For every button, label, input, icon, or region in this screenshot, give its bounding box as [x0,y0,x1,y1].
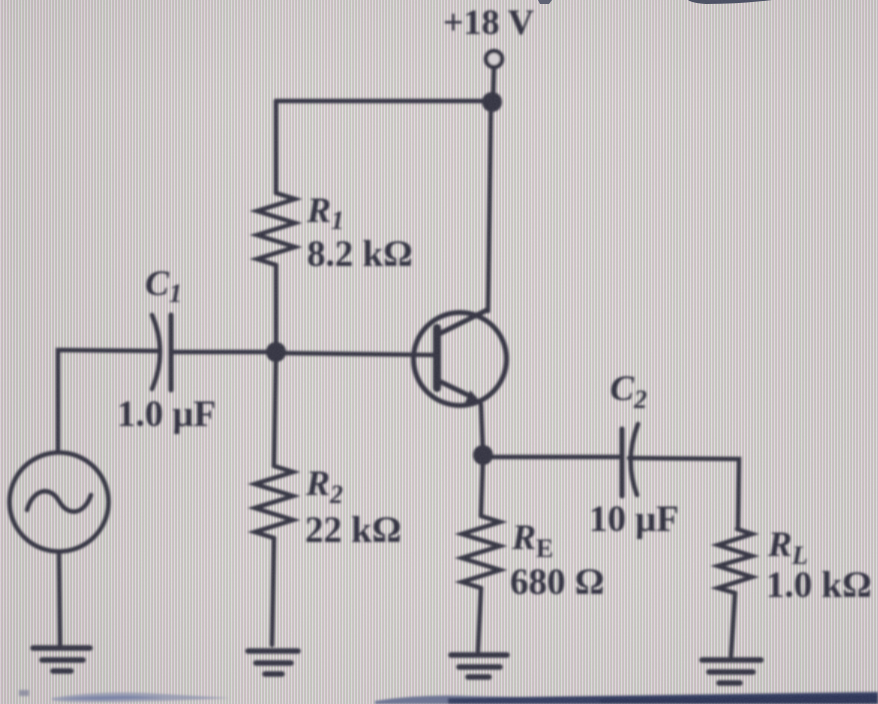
photo artifact: top edge dark streak [538,0,772,4]
transistor Q1 emitter arrowhead [465,390,482,404]
photo artifact: bottom-left blue smudge [19,690,230,702]
ground (RL) [702,660,761,683]
node E junction dot [473,445,493,465]
wire AC source to ground [59,553,60,645]
resistor R2 [255,466,293,538]
node top junction [482,92,502,112]
wire node E to RE [481,455,483,516]
resistor R1 [257,193,295,265]
wire input left segment [58,350,159,451]
wire collector rail [488,102,491,311]
transistor Q1 emitter lead [439,381,474,398]
wire emitter to node E [481,404,483,455]
ground (RE) [451,655,507,677]
resistor RL [718,529,752,593]
resistor RE [462,516,500,588]
wire node E to C2 [483,455,620,460]
transistor Q1 body [414,313,507,406]
wire RE to ground [478,588,481,651]
ground (AC source) [33,648,90,671]
transistor Q1 base bar [433,328,441,388]
capacitor C1 straight plate [169,315,174,390]
wire R1 branch top [274,101,279,193]
wire R2 to ground [272,538,274,645]
capacitor C1 curved plate [152,315,160,389]
wire RL to ground [731,593,735,656]
ground (R2) [248,651,298,674]
wire top rail [276,99,492,104]
AC source V1 [10,453,109,552]
wire terminal to top junction [493,68,494,100]
wire base [276,353,434,355]
transistor Q1 collector lead [439,310,487,334]
power terminal (open circle) [486,51,502,67]
capacitor C2 straight plate [620,429,625,496]
wire R2 branch [274,352,276,466]
wire C1 to node B [172,350,276,355]
photo artifact: bottom navy bar [375,692,878,704]
node B junction dot [266,342,286,362]
wire R1 bottom to node B [274,265,279,352]
wire C2 to RL branch [629,458,739,529]
capacitor C2 curved plate [631,424,638,495]
